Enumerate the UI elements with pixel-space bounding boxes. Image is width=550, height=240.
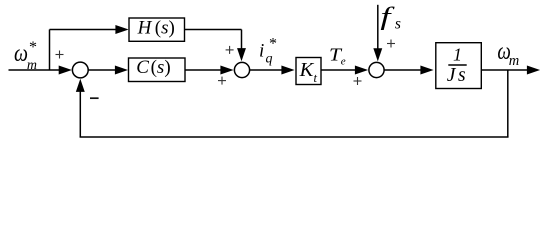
node i_q_ref label xyxy=(259,35,276,66)
svg-text:t: t xyxy=(314,71,318,85)
wire Kt to summing junction 3 xyxy=(321,66,368,75)
wire f_s down into summing junction 3 xyxy=(373,5,382,62)
node plus sign at summing junction 1 input xyxy=(56,51,64,59)
node f_s disturbance label xyxy=(380,2,401,32)
svg-text:H(s): H(s) xyxy=(137,18,175,39)
wire summing junction 3 to 1/Js block xyxy=(384,66,433,75)
svg-text:C(s): C(s) xyxy=(136,57,170,78)
node omega_m output label xyxy=(497,39,519,69)
wire input to summing junction 1 xyxy=(9,66,72,75)
svg-text:*: * xyxy=(28,39,36,56)
svg-text:s: s xyxy=(395,15,401,32)
wire H(s) output down into summing junction 2 xyxy=(185,30,246,62)
node minus sign at summing junction 1 feedback input xyxy=(90,97,99,99)
svg-text:ω: ω xyxy=(14,41,28,67)
wire summing junction 1 to C(s) xyxy=(88,66,128,75)
node T_e label xyxy=(329,45,346,68)
svg-text:q: q xyxy=(266,51,273,66)
wire summing junction 2 to Kt xyxy=(250,66,295,75)
svg-text:*: * xyxy=(268,35,276,52)
summing junction 2 xyxy=(234,62,249,77)
wire branch up to H(s) xyxy=(50,25,129,70)
summing junction 3 xyxy=(369,62,384,77)
svg-text:m: m xyxy=(509,53,519,69)
block G1 1/Js inertia xyxy=(436,43,482,89)
block H1 H(s) xyxy=(129,18,185,42)
svg-text:K: K xyxy=(299,59,315,81)
summing junction 1 xyxy=(72,62,88,78)
svg-text:1: 1 xyxy=(453,45,462,65)
wire output omega_m xyxy=(481,66,540,75)
node plus sign at summing junction 3 left input xyxy=(354,77,362,85)
wire feedback loop xyxy=(76,70,509,137)
svg-text:e: e xyxy=(341,56,346,68)
block C1 C(s) xyxy=(129,57,186,82)
node plus sign at summing junction 2 left input xyxy=(218,77,226,85)
node plus sign at summing junction 2 top input xyxy=(226,46,234,54)
svg-text:i: i xyxy=(259,41,264,62)
block Kt torque constant xyxy=(296,58,321,85)
wire C(s) output to summing junction 2 xyxy=(185,66,234,75)
node plus sign at summing junction 3 top input xyxy=(387,40,395,48)
node omega_m_ref input label xyxy=(14,39,37,73)
svg-text:f: f xyxy=(380,2,395,30)
